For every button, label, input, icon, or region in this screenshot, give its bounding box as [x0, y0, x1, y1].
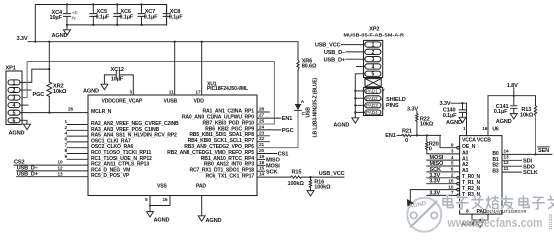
- wire XP2 pin4 stub: [357, 66, 365, 68]
- svg-text:SCK: SCK: [266, 169, 277, 175]
- node USB_VCC to XP2 pin1: [315, 43, 365, 49]
- wire U1 bottom VSS pins to AGND: [149, 196, 170, 212]
- svg-text:U6: U6: [492, 127, 499, 133]
- svg-text:3.3V: 3.3V: [17, 36, 28, 42]
- node USB_D- label to pin12: [17, 166, 88, 172]
- resistor R21 0: [397, 128, 441, 144]
- svg-text:22: 22: [259, 136, 265, 141]
- XP2 shield pad box: [364, 88, 383, 116]
- svg-text:3.3V: 3.3V: [429, 190, 440, 196]
- svg-text:MUSB-05-F-AB-SM-A-R: MUSB-05-F-AB-SM-A-R: [344, 33, 405, 38]
- capacitor C140 0.1uF: [443, 103, 466, 119]
- ground AGND cap bank: [52, 25, 71, 39]
- svg-text:21: 21: [259, 142, 265, 147]
- frame doc number: [548, 213, 553, 230]
- wire LED cathode to U1 pin21: [257, 110, 298, 147]
- wire XP2 pin5 and shield pads to AGND: [354, 74, 365, 118]
- node 3.3V to T_R0_N: [427, 173, 457, 179]
- LED L8 blue: [295, 77, 319, 137]
- svg-text:PIC18F24J50-I/ML: PIC18F24J50-I/ML: [207, 86, 248, 92]
- svg-text:15: 15: [259, 166, 265, 171]
- wire U6 VCCA supply with C140: [440, 101, 467, 136]
- wire B0 to SEN: [502, 147, 552, 156]
- svg-text:USB_D–: USB_D–: [324, 50, 345, 56]
- ground AGND VSS: [147, 212, 170, 224]
- node 3.3V rail junctions: [34, 41, 203, 43]
- svg-text:AGND: AGND: [206, 218, 222, 224]
- resistor XR6 80.6 LED series: [297, 42, 317, 104]
- svg-text:USB_VCC: USB_VCC: [319, 171, 345, 177]
- svg-text:AGND: AGND: [446, 120, 462, 126]
- U1 right pin names: [167, 109, 254, 180]
- svg-text:SCLK: SCLK: [523, 170, 538, 176]
- svg-text:5: 5: [13, 111, 16, 117]
- svg-text:12: 12: [57, 166, 63, 171]
- svg-text:0: 0: [429, 147, 432, 153]
- resistor R15 100k: [257, 169, 344, 187]
- svg-text:PAD1: PAD1: [366, 89, 378, 94]
- svg-text:13: 13: [504, 154, 510, 159]
- svg-text:0: 0: [405, 138, 408, 144]
- wire U1 PAD pin to AGND: [201, 196, 203, 216]
- op-amp U1 PIC18F24J50 body: [88, 81, 257, 202]
- svg-text:www.elecfans.com: www.elecfans.com: [447, 215, 543, 230]
- svg-text:VUSB: VUSB: [164, 99, 178, 105]
- watermark logo circle: [407, 198, 441, 232]
- svg-text:13: 13: [57, 171, 63, 176]
- U6 right pin numbers: [504, 148, 510, 171]
- svg-text:4: 4: [13, 103, 16, 109]
- svg-text:0.1µF: 0.1µF: [144, 15, 158, 21]
- svg-text:100kΩ: 100kΩ: [288, 181, 305, 187]
- svg-text:28: 28: [259, 107, 265, 112]
- ground AGND PAD: [198, 216, 221, 224]
- svg-text:16: 16: [162, 197, 168, 202]
- svg-text:AGND: AGND: [83, 89, 99, 95]
- wire VUSB supply: [174, 42, 176, 95]
- svg-text:SEN: SEN: [538, 148, 549, 154]
- U6 inversion bubbles: [457, 146, 460, 196]
- svg-text:0.1µF: 0.1µF: [443, 113, 457, 119]
- svg-text:VSS: VSS: [157, 184, 167, 190]
- resistor R20 0: [426, 135, 460, 154]
- ground AGND C140: [446, 117, 466, 126]
- svg-text:3: 3: [13, 96, 16, 102]
- svg-text:10kΩ: 10kΩ: [420, 122, 434, 128]
- svg-text:USB_D+: USB_D+: [324, 57, 346, 63]
- U1 left pin numbers: [57, 107, 73, 177]
- svg-text:PAD2: PAD2: [366, 96, 378, 101]
- node SDO label B2: [502, 164, 535, 170]
- U6 right pin names: [492, 151, 499, 175]
- node MISO to U6 A2: [427, 161, 460, 167]
- resistor R22 10k pullup: [407, 106, 434, 135]
- svg-text:6: 6: [13, 118, 16, 124]
- ground AGND C141: [496, 114, 518, 125]
- XP2 crossed box pin6: [365, 79, 381, 87]
- svg-text:17: 17: [195, 90, 201, 95]
- U6 left pin names: [462, 144, 481, 198]
- svg-text:AGND: AGND: [52, 33, 68, 39]
- svg-text:EN1: EN1: [385, 133, 395, 139]
- svg-text:19: 19: [259, 154, 265, 159]
- capacitor XC7 0.1uF: [138, 5, 158, 25]
- svg-text:10µF: 10µF: [111, 77, 124, 83]
- svg-text:11: 11: [504, 166, 509, 171]
- wire XP1 pin5 MCLR net: [20, 112, 88, 114]
- svg-text:4: 4: [371, 64, 374, 70]
- svg-text:100kΩ: 100kΩ: [314, 185, 331, 191]
- wire T_R2_N to AGND: [410, 190, 456, 202]
- svg-text:15: 15: [448, 178, 454, 183]
- ground AGND T_R2 rotated: [405, 200, 428, 210]
- svg-text:MCLR_N: MCLR_N: [91, 109, 112, 115]
- node EN1 label pin27: [257, 116, 292, 122]
- node SDI label B1: [502, 158, 532, 164]
- connector XP1: [6, 66, 23, 125]
- ground AGND U6: [461, 221, 484, 227]
- node 1.8V rail: [488, 83, 536, 136]
- svg-text:1111342: 1111342: [548, 213, 553, 230]
- svg-text:AGND: AGND: [496, 119, 512, 125]
- node CS1 label pin20: [257, 152, 288, 158]
- svg-text:PGC: PGC: [282, 128, 294, 134]
- wire EN1 to OE_N: [440, 135, 457, 147]
- svg-text:R21: R21: [402, 128, 412, 134]
- svg-text:AGND: AGND: [154, 218, 170, 224]
- svg-text:10µF: 10µF: [50, 15, 63, 21]
- U1 left pin names: [91, 109, 179, 179]
- node PGC label XP1 pin2: [20, 90, 44, 98]
- node 3.3V to T_R1_N: [427, 179, 457, 185]
- svg-text:10: 10: [448, 184, 454, 189]
- capacitor XC4 10uF polarized: [50, 5, 78, 25]
- node MOSI label pin18: [257, 163, 280, 169]
- svg-text:AGND: AGND: [333, 122, 349, 128]
- svg-text:10kΩ: 10kΩ: [53, 89, 67, 95]
- capacitor XC12 10uF: [104, 67, 133, 95]
- node USB_D+ label to pin13: [17, 171, 88, 177]
- node USB_D+ to XP2 pin3: [324, 57, 365, 63]
- U6 left pin numbers: [448, 142, 454, 195]
- capacitor XC8 0.1uF: [163, 5, 183, 25]
- svg-text:0.1µF: 0.1µF: [494, 109, 508, 115]
- svg-text:10: 10: [57, 160, 63, 165]
- connector XP2 USB: [344, 27, 405, 78]
- svg-text:1: 1: [13, 80, 16, 86]
- svg-text:PAD4: PAD4: [366, 110, 378, 115]
- U6 bottom GND PAD: [466, 209, 527, 223]
- node EN1 label at R21: [385, 133, 395, 139]
- node USB_D- to XP2 pin2: [324, 50, 365, 56]
- wire U1 left stubs pins 1,2,4,6,7,8,9: [67, 125, 88, 160]
- watermark chinese text: [443, 196, 554, 209]
- svg-text:16: 16: [482, 126, 488, 131]
- svg-text:B3: B3: [492, 169, 499, 175]
- svg-text:OE_N: OE_N: [462, 144, 476, 150]
- U1 right pin numbers: [259, 107, 265, 177]
- svg-text:PINS: PINS: [386, 103, 399, 109]
- svg-text:5: 5: [371, 72, 374, 78]
- svg-text:14: 14: [259, 172, 265, 177]
- capacitor XC6 0.1uF: [114, 5, 134, 25]
- svg-text:RC5_D_POS_VP: RC5_D_POS_VP: [91, 173, 130, 179]
- wire XP1 pin4 stub: [20, 104, 28, 106]
- node SCK to U6 A3: [427, 167, 460, 173]
- svg-text:11: 11: [169, 90, 174, 95]
- node SHIELD PINS note: [382, 89, 406, 109]
- svg-text:EN1: EN1: [282, 116, 292, 122]
- svg-text:23: 23: [259, 130, 265, 135]
- svg-text:AGND: AGND: [9, 131, 25, 137]
- node SCLK label B3: [502, 170, 538, 176]
- node PGC label pin24: [257, 128, 294, 134]
- svg-text:USB_D+: USB_D+: [17, 171, 39, 177]
- svg-text:PAD3: PAD3: [366, 103, 378, 108]
- svg-text:USB_VCC: USB_VCC: [315, 43, 341, 49]
- wire XP1 pin3 PGD to U1 pin25: [20, 62, 274, 125]
- svg-text:LB L2B3-NIN235-Z (BLUE): LB L2B3-NIN235-Z (BLUE): [313, 77, 319, 137]
- resistor R13 10k: [520, 106, 537, 155]
- watermark url text: [447, 215, 543, 230]
- ground AGND XC12: [83, 75, 108, 95]
- node CS2 label to pin10: [14, 160, 88, 166]
- wire U1 right stubs pins 28,23,22: [257, 112, 269, 142]
- svg-text:0.1µF: 0.1µF: [119, 15, 133, 21]
- svg-text:3.3V: 3.3V: [440, 101, 451, 107]
- svg-text:PAD: PAD: [196, 184, 206, 190]
- svg-text:3: 3: [371, 57, 374, 63]
- node SCK label pin15: [257, 169, 277, 175]
- node MOSI to U6 A1: [427, 155, 460, 161]
- svg-text:27: 27: [259, 113, 265, 118]
- svg-text:24: 24: [259, 124, 265, 129]
- resistor XR2 10k pullup: [47, 42, 67, 113]
- node MISO label pin19: [257, 158, 280, 164]
- svg-text:20: 20: [259, 148, 265, 153]
- svg-text:A3: A3: [462, 168, 469, 174]
- svg-text:VDD: VDD: [194, 99, 205, 105]
- svg-text:USB: USB: [306, 107, 312, 118]
- svg-text:XC12: XC12: [111, 67, 124, 73]
- wire capacitor bank rails: [35, 5, 166, 42]
- svg-text:26: 26: [68, 107, 74, 112]
- svg-text:VCCA VCCB: VCCA VCCB: [462, 137, 491, 143]
- IC U6 SN74AVC4T245 body: [460, 126, 502, 214]
- svg-text:25: 25: [259, 119, 265, 124]
- resistor R16 100k: [309, 177, 331, 191]
- svg-text:2: 2: [371, 50, 374, 56]
- node 3.3V label: [17, 36, 28, 42]
- wire VDD supply: [201, 42, 203, 95]
- node 3.3V to T_R3_N: [427, 190, 457, 196]
- ground AGND XP2: [333, 118, 358, 129]
- svg-text:3.3V: 3.3V: [429, 179, 440, 185]
- svg-text:0.1µF: 0.1µF: [96, 15, 110, 21]
- svg-text:10kΩ: 10kΩ: [520, 112, 534, 118]
- svg-text:RC6_TX1_CK1_RP17: RC6_TX1_CK1_RP17: [205, 174, 254, 180]
- capacitor C141 0.1uF: [494, 96, 517, 115]
- svg-text:0.1µF: 0.1µF: [169, 15, 183, 21]
- svg-text:18: 18: [259, 160, 265, 165]
- ground R16: [307, 191, 314, 196]
- capacitor XC5 0.1uF: [90, 5, 110, 25]
- ground AGND XP1 pin6: [9, 120, 31, 136]
- svg-text:14: 14: [504, 148, 510, 153]
- wire 3.3V rail top: [28, 41, 298, 43]
- svg-text:VDDCORE_VCAP: VDDCORE_VCAP: [102, 99, 143, 105]
- wire XP1 pin1 to 3.3V: [20, 68, 50, 82]
- svg-text:R15: R15: [292, 169, 302, 175]
- node cap bank junction dots: [66, 3, 143, 26]
- svg-text:1.8V: 1.8V: [507, 83, 518, 89]
- svg-text:PGC: PGC: [33, 92, 45, 98]
- svg-text:80.6Ω: 80.6Ω: [302, 63, 317, 69]
- svg-text:N: N: [72, 16, 75, 21]
- svg-text:12: 12: [504, 160, 510, 165]
- svg-text:2: 2: [13, 88, 16, 94]
- svg-text:1: 1: [371, 43, 374, 49]
- node USB_VCC label: [319, 171, 345, 177]
